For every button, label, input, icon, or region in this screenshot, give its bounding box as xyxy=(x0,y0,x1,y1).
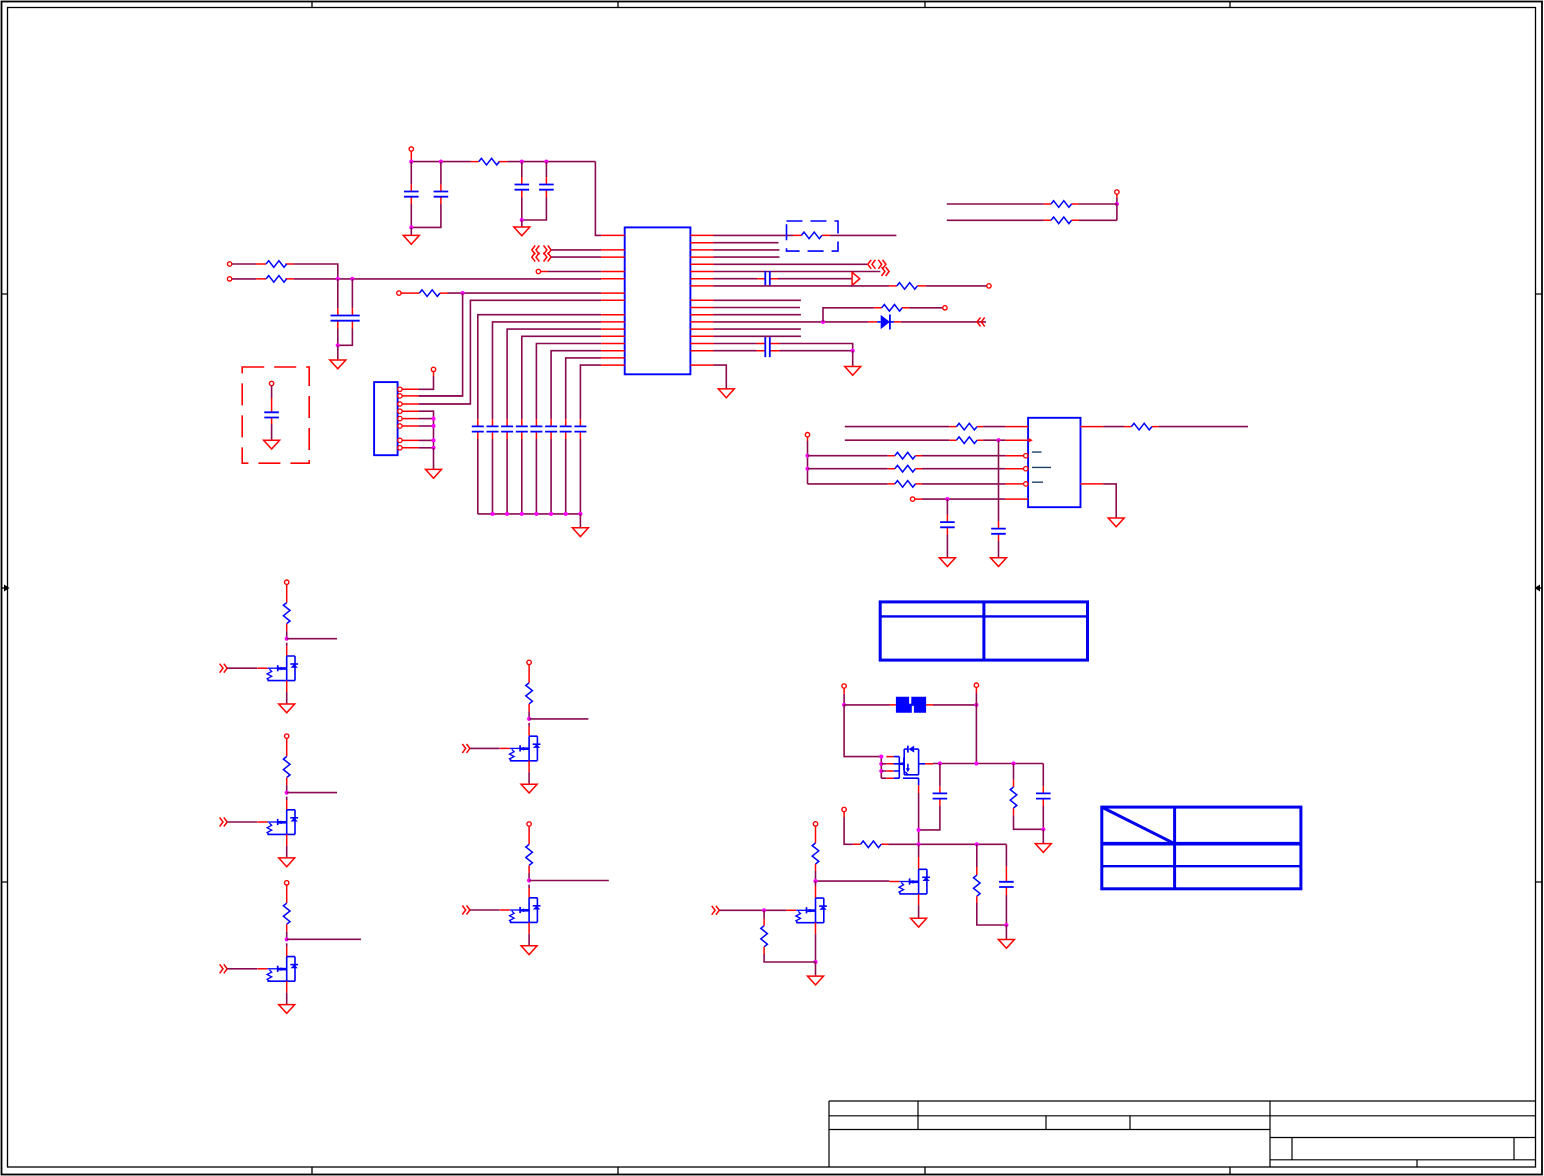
wire xyxy=(551,249,601,251)
port PK xyxy=(805,433,809,437)
node junction xyxy=(821,320,825,324)
wire row 336.3 xyxy=(714,335,801,337)
wire after diode xyxy=(901,321,986,323)
wire Q7 source xyxy=(918,905,920,918)
node C3/C4 gnd junction xyxy=(520,218,524,222)
ground G15 xyxy=(521,784,537,793)
circuit 1: pullup R16 xyxy=(283,580,290,656)
wire row to IC xyxy=(448,292,602,294)
wire row 321.9 diode net xyxy=(714,321,869,323)
wire gnd stem xyxy=(521,220,523,227)
wire bus E xyxy=(507,329,601,419)
resistor R25 below mid rail xyxy=(976,844,978,867)
U2 inverting pin bubbles xyxy=(1024,454,1028,458)
connector pin stubs xyxy=(402,389,418,448)
port PJ xyxy=(1115,190,1119,194)
wire out xyxy=(529,718,588,720)
ground G1 xyxy=(403,235,419,244)
ground G2 xyxy=(514,227,530,236)
wire bus H xyxy=(551,351,601,420)
port PC xyxy=(397,291,401,295)
dashed box xyxy=(242,367,309,463)
wire row 314.7 xyxy=(714,314,801,316)
zone ticks left xyxy=(2,294,8,882)
ground G7 xyxy=(845,367,861,376)
wire top rail xyxy=(411,161,595,163)
node junction xyxy=(813,960,817,964)
wire row B to IC xyxy=(294,278,601,280)
node junction xyxy=(1004,923,1008,927)
ground G14 xyxy=(279,1005,295,1014)
circuit 2: pullup R17 xyxy=(283,734,290,810)
resistor R6 xyxy=(889,285,926,287)
resistor R22 xyxy=(853,843,889,845)
wire row 329.1 xyxy=(714,328,801,330)
wire row 278.7 with series cap xyxy=(714,278,758,280)
wire xyxy=(915,498,922,500)
offpage connector row 271.5 xyxy=(882,267,890,276)
offpage connector gate 5 xyxy=(462,906,470,915)
capacitor C4 xyxy=(545,162,547,178)
port VIN1 xyxy=(409,147,413,151)
wire xyxy=(947,219,1044,221)
resistor R21 xyxy=(1013,764,1015,780)
offpage connector gate 4 xyxy=(462,744,470,753)
zone ticks right xyxy=(1536,294,1543,882)
ground G3 xyxy=(330,360,346,369)
resistor R14 xyxy=(888,483,922,485)
port PM mid xyxy=(842,807,846,811)
capacitor C6 xyxy=(351,279,353,308)
wire out xyxy=(287,792,337,794)
wire bus C xyxy=(478,315,601,420)
capacitor C2 xyxy=(440,162,442,185)
wire pin3 to bus B xyxy=(419,403,471,405)
U2 left pin stubs xyxy=(1005,427,1028,500)
wire U2 right row 483.9 to gnd xyxy=(1103,484,1116,518)
resistor R2 xyxy=(256,263,294,265)
wire C6 bottom over to C5 xyxy=(338,329,353,346)
wire out xyxy=(529,880,609,882)
ground G6 xyxy=(572,528,588,537)
wire xyxy=(232,263,256,265)
wire row 204 xyxy=(1079,203,1117,205)
ground G13 xyxy=(279,858,295,867)
wire Q2 source xyxy=(286,846,288,858)
node junction xyxy=(1041,827,1045,831)
capacitor C20 xyxy=(939,764,941,787)
wire down to drain rail xyxy=(975,705,977,764)
resistor R7 xyxy=(882,305,903,312)
wire row 350.7 xyxy=(714,350,757,352)
wire stem xyxy=(843,812,845,817)
connector body xyxy=(374,382,398,455)
wire row 264.3 xyxy=(714,263,868,265)
wire gnd stem xyxy=(410,227,412,235)
wire gate 1 xyxy=(227,667,257,669)
port PN xyxy=(813,822,817,826)
transistor Q7 drain lead xyxy=(918,844,920,857)
capacitor C1 xyxy=(410,162,412,185)
ground G12 xyxy=(279,704,295,713)
wire to right port xyxy=(933,704,976,706)
ground G11 xyxy=(1108,518,1124,527)
node C5/C6 junction xyxy=(336,343,340,347)
wire gnd stem xyxy=(1005,925,1007,940)
node junction xyxy=(1115,202,1119,206)
wire bus D xyxy=(493,322,602,419)
wire C2 bottom to C1 bottom xyxy=(411,204,441,227)
node junction xyxy=(842,703,846,707)
wire gate 2 xyxy=(227,821,257,823)
IC U1 right pins xyxy=(690,235,713,365)
branch up to resistor R7 and port xyxy=(823,308,874,322)
resistor R15 xyxy=(1124,426,1159,428)
capacitor C5 xyxy=(337,279,339,308)
wire row 271.5 xyxy=(714,271,881,273)
wire xyxy=(1159,426,1248,428)
offpage connector row 264.3 xyxy=(868,260,876,269)
dashed box around R5 xyxy=(787,221,839,251)
fuse F1 xyxy=(890,704,934,706)
wire xyxy=(922,483,1005,485)
wire bus J xyxy=(580,365,601,419)
U2 clock pin arrow xyxy=(1028,438,1032,443)
wire out xyxy=(287,938,361,940)
node junctions on drain rail xyxy=(938,761,942,765)
wire bus I xyxy=(566,358,602,419)
wire gate 5 xyxy=(470,909,500,911)
capacitor C21 xyxy=(1042,764,1044,787)
port PD xyxy=(269,381,273,385)
wire down to Q8 xyxy=(815,881,817,886)
transistor Q7 xyxy=(889,869,930,905)
wire xyxy=(910,307,943,309)
ground G5 xyxy=(426,469,442,478)
wire pin4 to gnd rail xyxy=(419,411,434,448)
offpage connector row 321.9 xyxy=(977,317,985,326)
wire Q5 source xyxy=(528,934,530,946)
circuit 4: pullup R19 xyxy=(526,660,533,736)
node junction gate xyxy=(762,908,766,912)
title block xyxy=(829,1101,1536,1167)
transistor Q3 xyxy=(257,957,298,993)
wire U2 row 468.7 xyxy=(808,468,888,470)
capacitor C7 xyxy=(271,386,273,398)
wire mid rail xyxy=(889,843,1007,845)
resistor R23 vertical from port xyxy=(815,826,817,843)
wire gnd stem xyxy=(815,962,817,976)
wire xyxy=(922,468,1005,470)
wire left branch down to Q6 xyxy=(844,705,881,757)
connector pin bubbles xyxy=(398,387,402,391)
resistor R24 gate pulldown xyxy=(763,910,765,918)
ground G9 xyxy=(991,558,1007,567)
wire bus F xyxy=(522,336,601,419)
transistor Q1 xyxy=(257,656,298,692)
wire vertical xyxy=(1116,204,1118,220)
node B junctions xyxy=(336,277,340,281)
wire Q6 source down xyxy=(918,793,920,844)
port PA xyxy=(227,262,231,266)
node junction row 440.2 xyxy=(996,438,1000,442)
node rail junctions xyxy=(409,160,413,164)
wire row 300.3 xyxy=(714,299,801,301)
wire gnd stem xyxy=(579,514,581,528)
resistor R1 xyxy=(471,161,507,163)
port PG xyxy=(987,284,991,288)
ground G19 xyxy=(808,976,824,985)
wire row 257.1 xyxy=(714,256,780,258)
wire Q1 source xyxy=(286,692,288,704)
node bus A top junction xyxy=(461,291,465,295)
node junction xyxy=(851,349,855,353)
wire pin8 xyxy=(419,447,434,449)
wire Q7 gate from Q8 drain xyxy=(816,880,890,882)
wire row 285.9 xyxy=(714,285,890,287)
wire Q3 source xyxy=(286,993,288,1005)
capacitor C18 xyxy=(946,499,948,515)
IC U2 body xyxy=(1028,418,1080,507)
transistor Q8 xyxy=(786,898,827,934)
U2 right pin stubs xyxy=(1081,427,1104,484)
resistor R12 xyxy=(888,455,922,457)
wire gnd stem xyxy=(1042,829,1044,843)
wire gnd stem xyxy=(852,351,854,367)
wire xyxy=(983,426,1005,428)
wire xyxy=(983,439,1005,441)
IC U1 body xyxy=(625,227,691,374)
resistor R13 xyxy=(888,468,922,470)
IC U1 left pins xyxy=(601,235,625,365)
node junction xyxy=(945,497,949,501)
wire xyxy=(926,285,987,287)
node junction xyxy=(917,828,921,832)
wire port down with taps xyxy=(807,437,809,441)
wire bus B xyxy=(419,300,602,404)
wire cap bottoms to rail xyxy=(478,439,581,514)
wire stem xyxy=(1116,194,1118,198)
port PL row 499.1 xyxy=(910,497,914,501)
offpage connector gate 2 xyxy=(220,818,228,827)
node junctions mid rail xyxy=(917,842,921,846)
wire gate 4 xyxy=(470,747,500,749)
wire Q8 source to junction xyxy=(815,934,817,962)
port PWR-OUT xyxy=(974,683,978,687)
port PF row 271.5 xyxy=(536,269,540,273)
wire pin7 xyxy=(419,439,434,441)
wire gate 3 xyxy=(227,968,257,970)
wire to IC pin 1 xyxy=(595,162,601,236)
resistor R11 xyxy=(949,439,983,441)
port PB xyxy=(227,277,231,281)
capacitor C22 below mid rail bend xyxy=(1005,844,1007,866)
zone ticks bottom xyxy=(312,1167,1230,1175)
wire drain rail xyxy=(933,763,1043,765)
wire gnd rail xyxy=(478,513,581,515)
resistor R10 xyxy=(949,426,983,428)
wire C4 bottom to C3 bottom xyxy=(522,198,547,221)
capacitor C16 xyxy=(765,271,770,286)
diode D1 xyxy=(868,321,901,323)
ground G4 xyxy=(264,440,280,449)
ground G18 xyxy=(911,918,927,927)
offpage connector gate 3 xyxy=(220,964,228,973)
wire row 307.5 xyxy=(714,307,801,309)
wire xyxy=(232,278,256,280)
wire bus G xyxy=(536,344,601,420)
ground G20 xyxy=(998,940,1014,949)
transistor Q2 xyxy=(257,810,298,846)
resistor R9 xyxy=(1051,217,1072,224)
ground G17 xyxy=(1035,844,1051,853)
port PWR-IN xyxy=(842,684,846,688)
resistor R3 xyxy=(256,278,294,280)
wire pin2 to bus A xyxy=(419,395,463,397)
wire stem xyxy=(975,687,977,693)
wire stem xyxy=(843,688,845,694)
offpage connector gate 1 xyxy=(220,664,228,673)
wire Q4 source xyxy=(528,772,530,784)
wire pin6 xyxy=(419,425,434,427)
node junction xyxy=(974,703,978,707)
wire U2 row 426.6 xyxy=(845,426,950,428)
wire gnd stem xyxy=(337,345,339,360)
transistor Q4 xyxy=(500,736,541,772)
zone ticks top xyxy=(312,2,1230,8)
wire row 249.9 xyxy=(714,249,780,251)
resistor R8 xyxy=(1051,201,1072,208)
wire U2 row 483.9 xyxy=(808,483,888,485)
wire to corner, down to row B xyxy=(294,264,338,279)
node C1/C2 gnd junction xyxy=(409,225,413,229)
wire U2 right row 426.6 xyxy=(1103,426,1124,428)
wire port to pin1 xyxy=(433,372,435,376)
wire fuse row xyxy=(844,704,889,706)
U2 pin overbars xyxy=(1032,452,1051,482)
ground G16 xyxy=(521,946,537,955)
wire Q8 gate xyxy=(719,909,786,911)
wire gnd stem xyxy=(433,448,435,470)
wire xyxy=(922,455,1005,457)
wire U2 row 455.7 xyxy=(808,455,888,457)
offpage triangle connector xyxy=(852,272,860,285)
wire row 220.3 xyxy=(1079,219,1117,221)
node rail junctions xyxy=(490,512,494,516)
resistor R4 xyxy=(401,292,447,294)
wire xyxy=(778,278,852,280)
port PH xyxy=(943,306,947,310)
circuit 3: pullup R18 xyxy=(283,881,290,957)
wire xyxy=(541,271,548,273)
wire port stem xyxy=(410,151,412,159)
offpage connector Q8 gate xyxy=(712,906,720,915)
wire row 235.4 xyxy=(714,234,794,236)
port PE above connector xyxy=(431,367,435,371)
offpage connector row 249.9 xyxy=(532,245,540,254)
circuit 5: pullup R20 xyxy=(526,822,533,898)
wire row 343.5 with series cap xyxy=(714,343,757,345)
wire vertical to cap xyxy=(998,440,1000,521)
wire U2 row 440.2 xyxy=(845,439,950,441)
wire pin5 xyxy=(419,418,434,420)
node junction xyxy=(813,879,817,883)
wire row 242.7 xyxy=(714,242,779,244)
transistor Q6 P-MOSFET xyxy=(879,746,933,793)
wire out xyxy=(287,638,337,640)
wire xyxy=(947,203,1044,205)
capacitor C3 xyxy=(521,162,523,178)
ground G8 xyxy=(718,389,734,398)
offpage connector row 257.1 xyxy=(532,253,540,262)
wire xyxy=(551,256,601,258)
transistor Q5 xyxy=(500,898,541,934)
capacitor C19 xyxy=(998,521,1000,541)
resistor R5 in dashed box xyxy=(793,234,830,236)
zone center arrow right xyxy=(1535,585,1543,592)
capacitor C17 tall plates xyxy=(765,337,770,357)
wire row 365.1 to gnd xyxy=(714,365,727,389)
wire bus A xyxy=(419,293,463,396)
capacitors C8-C15 row xyxy=(472,419,587,439)
ground G10 xyxy=(939,558,955,567)
node pin junctions xyxy=(431,417,435,421)
zone center arrow left xyxy=(2,585,10,592)
